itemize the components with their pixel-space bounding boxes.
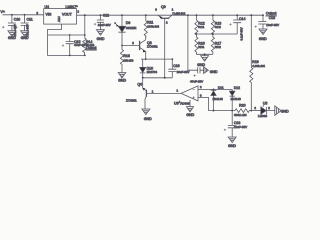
svg-text:C12: C12	[103, 14, 109, 18]
resistor R14	[83, 35, 97, 55]
junction	[262, 14, 264, 16]
svg-text:ADJ: ADJ	[57, 16, 61, 22]
junction	[145, 58, 147, 60]
ground	[204, 67, 218, 74]
svg-text:GREEN: GREEN	[126, 26, 136, 30]
wire divider bottom	[196, 53, 213, 55]
svg-text:Q6: Q6	[137, 83, 142, 87]
junction	[236, 14, 238, 16]
junction	[213, 110, 215, 112]
transistor Q9 D45H11	[155, 5, 185, 78]
transistor Q8 ZTX451	[140, 37, 158, 60]
junction	[121, 14, 123, 16]
ground	[8, 31, 16, 40]
wire ADJ network	[48, 15, 85, 55]
svg-text:ZTX451: ZTX451	[147, 44, 158, 48]
svg-text:C13: C13	[269, 16, 275, 20]
svg-text:GND: GND	[118, 78, 126, 82]
op-amp U3	[174, 85, 209, 106]
resistor R13	[211, 15, 221, 35]
junction	[121, 45, 123, 47]
diode D11 1N4148	[211, 86, 224, 111]
svg-text:GND: GND	[21, 36, 29, 40]
junction	[196, 33, 198, 35]
svg-text:1N4148: 1N4148	[213, 97, 224, 101]
junction	[250, 110, 252, 112]
svg-text:R20: R20	[239, 103, 245, 107]
svg-text:10uF-35V: 10uF-35V	[98, 23, 111, 27]
wire input rail	[3, 14, 44, 16]
ground	[275, 106, 289, 115]
svg-text:ZTX651: ZTX651	[126, 99, 137, 103]
svg-text:RC2: RC2	[215, 25, 221, 29]
voltage ref U5 LM336	[251, 102, 274, 118]
capacitor C17	[188, 15, 204, 83]
svg-text:100k-1%: 100k-1%	[147, 25, 159, 29]
svg-text:RD1: RD1	[198, 45, 204, 49]
svg-text:LM336: LM336	[258, 114, 268, 118]
svg-text:RC1: RC1	[198, 25, 204, 29]
svg-text:12uF-35V: 12uF-35V	[234, 125, 247, 129]
junction	[212, 33, 214, 35]
junction	[171, 58, 173, 60]
junction	[145, 14, 147, 16]
LED D9	[114, 15, 136, 45]
svg-text:1N4734: 1N4734	[147, 70, 158, 74]
svg-text:0.1uF-50V: 0.1uF-50V	[240, 27, 244, 40]
transistor Q6 ZTX651	[126, 78, 181, 109]
node V+	[1, 10, 6, 14]
svg-text:VOUT: VOUT	[62, 12, 73, 16]
svg-text:1N4148: 1N4148	[231, 97, 242, 101]
svg-text:D12: D12	[234, 86, 240, 90]
svg-text:U4: U4	[45, 5, 50, 9]
junction	[100, 14, 102, 16]
wire VOUT rail	[77, 14, 264, 16]
capacitor C12	[94, 14, 111, 30]
svg-text:C14: C14	[239, 17, 245, 21]
ground	[21, 31, 29, 40]
svg-text:GND: GND	[210, 70, 218, 74]
svg-text:AD638: AD638	[180, 101, 190, 105]
junction	[69, 55, 71, 57]
wire noninverting input / bottom rail	[209, 97, 235, 110]
wire Q8 base	[122, 45, 140, 47]
svg-text:V+: V+	[1, 10, 6, 14]
wire emitter row	[141, 58, 172, 60]
wire mid divider	[196, 33, 237, 35]
ground	[197, 54, 208, 67]
svg-text:GND: GND	[228, 144, 236, 148]
diode D12 1N4148	[229, 86, 241, 111]
resistor R12	[195, 15, 205, 35]
capacitor C14	[229, 15, 245, 40]
svg-text:Output: Output	[86, 46, 97, 50]
capacitor C11	[15, 15, 32, 37]
svg-text:GND: GND	[186, 113, 194, 117]
resistor R11	[144, 15, 159, 38]
ground	[259, 29, 267, 41]
resistor R20	[234, 103, 251, 117]
resistor R18	[120, 46, 133, 73]
svg-text:GND: GND	[281, 109, 289, 113]
svg-text:LM317*: LM317*	[66, 5, 79, 9]
svg-text:D11: D11	[218, 86, 224, 90]
junction	[84, 55, 86, 57]
regulator U4 LM317	[44, 5, 80, 24]
svg-text:4.99k-1%: 4.99k-1%	[252, 64, 265, 68]
wire lower row	[143, 77, 173, 79]
svg-text:10k-1%: 10k-1%	[123, 58, 133, 62]
svg-text:GND: GND	[144, 117, 152, 121]
ground	[96, 30, 104, 41]
junction	[212, 14, 214, 16]
svg-text:VIN: VIN	[46, 12, 52, 16]
svg-text:47uF-35V: 47uF-35V	[190, 79, 203, 83]
svg-text:D45H11: D45H11	[172, 12, 185, 16]
svg-text:680Ω-1%: 680Ω-1%	[234, 113, 247, 117]
junction	[69, 34, 71, 36]
junction	[231, 110, 233, 112]
svg-text:GND: GND	[97, 37, 105, 41]
svg-text:GND: GND	[259, 37, 267, 41]
ground	[142, 109, 152, 121]
svg-text:GND: GND	[8, 36, 16, 40]
svg-text:D9: D9	[126, 21, 131, 25]
ground	[118, 73, 126, 83]
junction	[187, 14, 189, 16]
junction	[24, 14, 26, 16]
capacitor C10	[2, 15, 20, 37]
junction	[250, 14, 252, 16]
junction	[84, 14, 86, 16]
capacitor C16	[168, 59, 189, 78]
diode D10 1N4734	[140, 59, 158, 78]
node Output	[266, 12, 277, 16]
svg-text:10uF-35V: 10uF-35V	[266, 23, 279, 27]
ground	[228, 137, 236, 148]
junction	[164, 77, 166, 79]
svg-text:Q9: Q9	[161, 5, 166, 9]
junction	[84, 34, 86, 36]
junction	[213, 89, 215, 91]
junction	[11, 14, 13, 16]
svg-text:C16: C16	[173, 64, 179, 68]
svg-text:C10: C10	[14, 17, 20, 21]
svg-text:C11: C11	[27, 17, 33, 21]
junction	[142, 77, 144, 79]
junction	[204, 53, 206, 55]
wire inverting input to diodes	[198, 88, 232, 90]
junction	[196, 14, 198, 16]
resistor R19	[250, 15, 266, 110]
resistor R17	[211, 34, 221, 54]
svg-text:GND: GND	[197, 63, 205, 67]
capacitor C18	[224, 111, 247, 137]
svg-text:Output: Output	[266, 12, 277, 16]
svg-text:RD2: RD2	[215, 45, 221, 49]
capacitor C15	[62, 35, 87, 55]
ground	[186, 107, 194, 117]
resistor R16	[195, 34, 205, 54]
capacitor C13	[255, 15, 279, 29]
